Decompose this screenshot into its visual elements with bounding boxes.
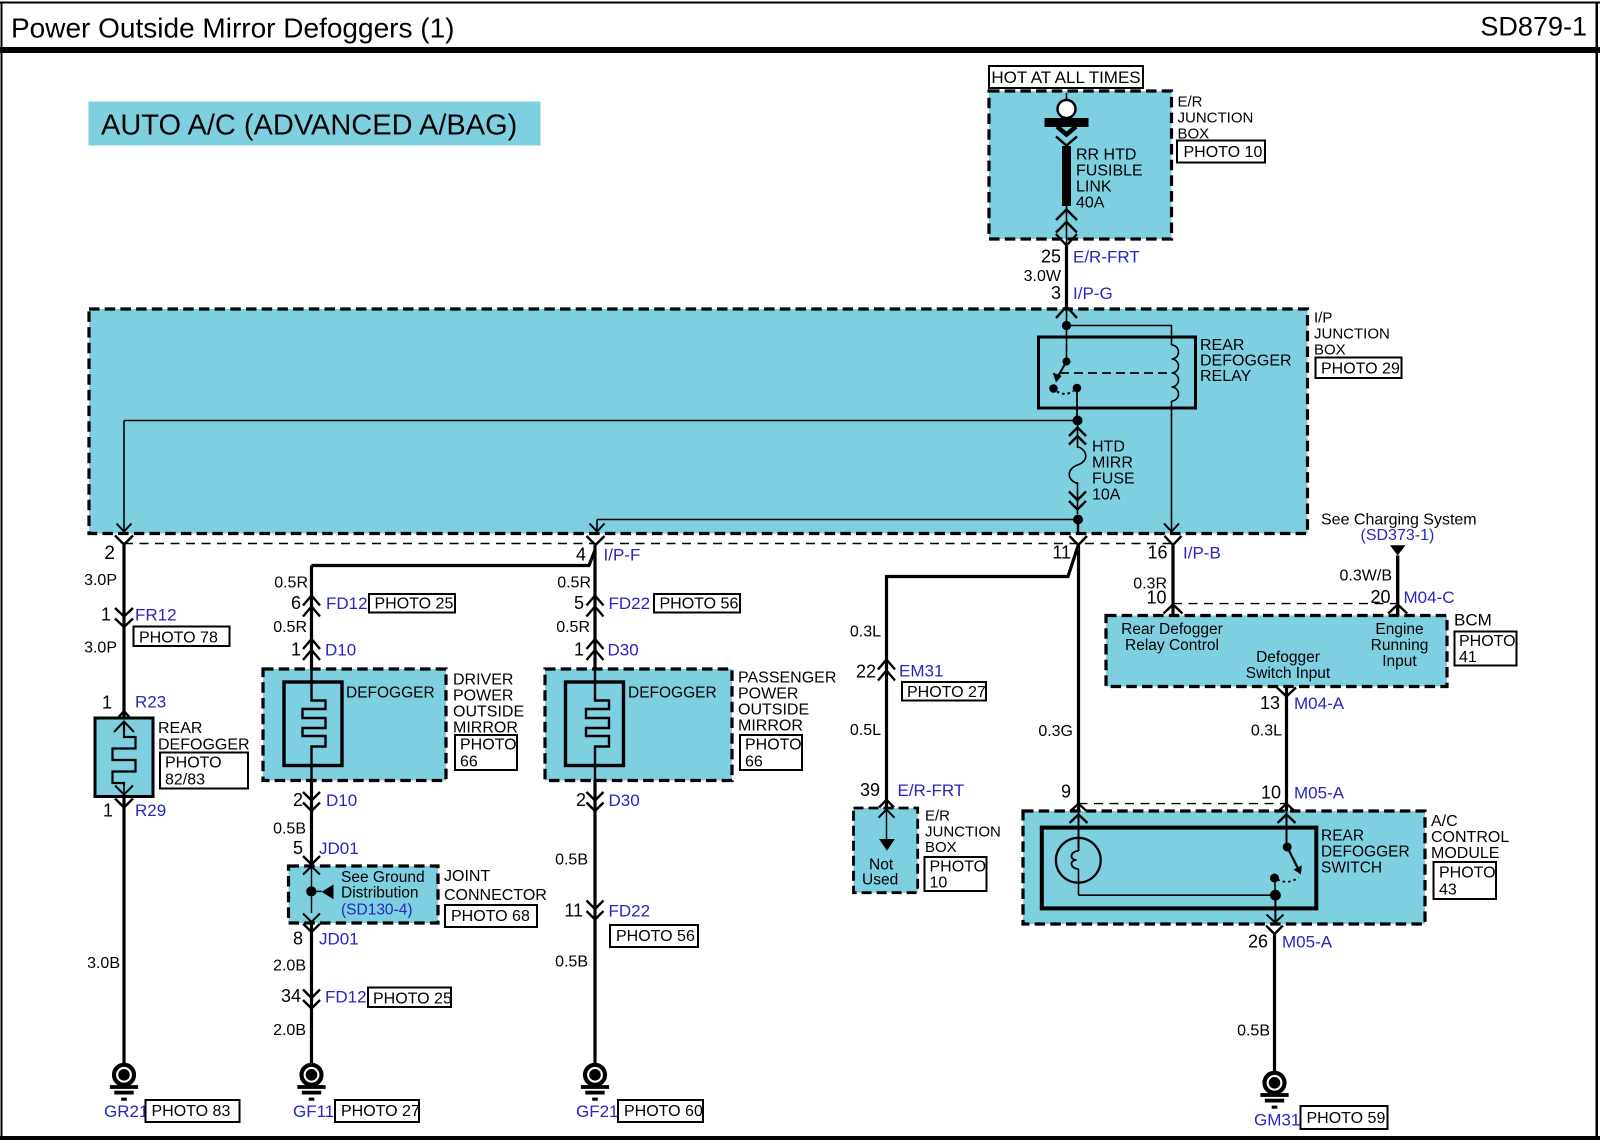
- svg-text:PHOTO 59: PHOTO 59: [1307, 1110, 1386, 1127]
- svg-text:OUTSIDE: OUTSIDE: [738, 702, 809, 719]
- svg-text:D30: D30: [609, 791, 640, 810]
- svg-text:FD22: FD22: [609, 594, 651, 613]
- svg-text:(SD373-1): (SD373-1): [1361, 527, 1435, 544]
- svg-text:PHOTO: PHOTO: [745, 737, 802, 754]
- svg-text:M04-C: M04-C: [1404, 588, 1455, 607]
- svg-text:0.5B: 0.5B: [273, 821, 306, 838]
- svg-text:DEFOGGER: DEFOGGER: [346, 685, 435, 702]
- svg-text:1: 1: [102, 693, 112, 713]
- svg-text:PHOTO: PHOTO: [460, 737, 517, 754]
- svg-text:I/P-F: I/P-F: [604, 546, 641, 565]
- svg-text:43: 43: [1439, 882, 1457, 899]
- svg-text:PHOTO 27: PHOTO 27: [341, 1103, 420, 1120]
- svg-text:13: 13: [1260, 693, 1280, 713]
- svg-text:M04-A: M04-A: [1294, 694, 1345, 713]
- svg-text:See Ground: See Ground: [341, 869, 425, 886]
- svg-text:0.5L: 0.5L: [850, 722, 881, 739]
- svg-text:OUTSIDE: OUTSIDE: [453, 704, 524, 721]
- svg-text:Input: Input: [1382, 653, 1417, 670]
- svg-text:PHOTO 60: PHOTO 60: [624, 1103, 703, 1120]
- svg-text:40A: 40A: [1076, 195, 1105, 212]
- svg-text:0.3W/B: 0.3W/B: [1340, 568, 1392, 585]
- svg-text:8: 8: [293, 929, 303, 949]
- svg-text:CONNECTOR: CONNECTOR: [444, 887, 547, 904]
- svg-text:E/R-FRT: E/R-FRT: [1073, 248, 1140, 267]
- svg-text:HOT AT ALL TIMES: HOT AT ALL TIMES: [991, 68, 1140, 87]
- svg-text:5: 5: [293, 838, 303, 858]
- svg-text:0.5R: 0.5R: [557, 575, 591, 592]
- svg-text:(SD130-4): (SD130-4): [341, 902, 413, 919]
- svg-text:Relay Control: Relay Control: [1125, 637, 1219, 654]
- svg-text:82/83: 82/83: [165, 772, 205, 789]
- svg-text:REAR: REAR: [158, 720, 202, 737]
- svg-text:GM31: GM31: [1254, 1111, 1300, 1130]
- svg-text:3.0P: 3.0P: [84, 572, 117, 589]
- svg-text:0.3L: 0.3L: [1251, 723, 1282, 740]
- svg-text:PHOTO 83: PHOTO 83: [152, 1103, 231, 1120]
- svg-text:BOX: BOX: [1314, 342, 1346, 359]
- svg-text:DEFOGGER: DEFOGGER: [158, 737, 250, 754]
- svg-text:DRIVER: DRIVER: [453, 672, 513, 689]
- svg-text:PHOTO: PHOTO: [1439, 865, 1496, 882]
- svg-text:I/P: I/P: [1314, 310, 1332, 327]
- svg-text:1: 1: [291, 640, 301, 660]
- svg-text:E/R: E/R: [1178, 94, 1203, 111]
- svg-text:Running: Running: [1371, 637, 1429, 654]
- svg-text:GR21: GR21: [104, 1102, 148, 1121]
- svg-text:1: 1: [574, 640, 584, 660]
- svg-text:JD01: JD01: [319, 839, 359, 858]
- svg-text:Rear Defogger: Rear Defogger: [1121, 621, 1223, 638]
- svg-text:0.5B: 0.5B: [1237, 1023, 1270, 1040]
- svg-text:JUNCTION: JUNCTION: [1178, 110, 1254, 127]
- svg-text:PHOTO 10: PHOTO 10: [1184, 144, 1263, 161]
- svg-text:0.5B: 0.5B: [555, 852, 588, 869]
- svg-text:See Charging System: See Charging System: [1321, 512, 1477, 529]
- svg-text:0.5R: 0.5R: [274, 575, 308, 592]
- svg-text:DEFOGGER: DEFOGGER: [628, 685, 717, 702]
- svg-text:JUNCTION: JUNCTION: [925, 824, 1001, 841]
- svg-text:FUSIBLE: FUSIBLE: [1076, 163, 1143, 180]
- svg-text:LINK: LINK: [1076, 179, 1112, 196]
- svg-text:6: 6: [291, 593, 301, 613]
- svg-text:E/R-FRT: E/R-FRT: [898, 781, 965, 800]
- svg-text:1: 1: [103, 801, 113, 821]
- svg-text:5: 5: [574, 593, 584, 613]
- svg-text:66: 66: [460, 754, 478, 771]
- svg-text:10: 10: [1261, 783, 1281, 803]
- svg-text:9: 9: [1061, 782, 1071, 802]
- svg-text:0.5R: 0.5R: [273, 619, 307, 636]
- svg-text:66: 66: [745, 754, 763, 771]
- svg-text:MIRR: MIRR: [1092, 455, 1133, 472]
- svg-text:I/P-B: I/P-B: [1183, 544, 1221, 563]
- svg-text:PHOTO: PHOTO: [165, 755, 222, 772]
- svg-text:FD12: FD12: [325, 988, 367, 1007]
- svg-text:AUTO A/C (ADVANCED A/BAG): AUTO A/C (ADVANCED A/BAG): [101, 110, 517, 142]
- svg-text:MIRROR: MIRROR: [453, 720, 518, 737]
- svg-text:PHOTO 78: PHOTO 78: [139, 630, 218, 647]
- svg-text:PHOTO 29: PHOTO 29: [1321, 361, 1400, 378]
- svg-text:JD01: JD01: [319, 930, 359, 949]
- svg-text:D10: D10: [325, 641, 356, 660]
- svg-text:16: 16: [1147, 543, 1167, 563]
- svg-text:25: 25: [1041, 247, 1061, 267]
- svg-text:Distribution: Distribution: [341, 885, 419, 902]
- svg-text:0.3L: 0.3L: [850, 624, 881, 641]
- svg-text:FD22: FD22: [609, 902, 651, 921]
- svg-text:RELAY: RELAY: [1200, 368, 1252, 385]
- svg-text:R29: R29: [135, 801, 166, 820]
- svg-text:PASSENGER: PASSENGER: [738, 670, 836, 687]
- svg-text:PHOTO 25: PHOTO 25: [375, 596, 454, 613]
- svg-text:JUNCTION: JUNCTION: [1314, 326, 1390, 343]
- svg-text:Defogger: Defogger: [1256, 649, 1320, 666]
- svg-text:PHOTO: PHOTO: [1459, 633, 1516, 650]
- svg-text:Power Outside Mirror Defoggers: Power Outside Mirror Defoggers (1): [11, 13, 454, 44]
- svg-text:SD879-1: SD879-1: [1480, 12, 1587, 42]
- svg-text:I/P-G: I/P-G: [1073, 284, 1113, 303]
- svg-text:41: 41: [1459, 649, 1477, 666]
- svg-text:1: 1: [101, 605, 111, 625]
- svg-text:PHOTO 25: PHOTO 25: [373, 991, 452, 1008]
- svg-text:2.0B: 2.0B: [273, 958, 306, 975]
- svg-text:POWER: POWER: [453, 688, 513, 705]
- svg-text:A/C: A/C: [1431, 813, 1458, 830]
- svg-text:3.0B: 3.0B: [87, 955, 120, 972]
- svg-text:D30: D30: [608, 641, 639, 660]
- svg-text:PHOTO 68: PHOTO 68: [451, 908, 530, 925]
- svg-text:FD12: FD12: [326, 594, 368, 613]
- svg-text:FUSE: FUSE: [1092, 471, 1135, 488]
- svg-text:26: 26: [1248, 932, 1268, 952]
- svg-text:PHOTO: PHOTO: [930, 859, 987, 876]
- svg-text:MODULE: MODULE: [1431, 845, 1499, 862]
- svg-text:DEFOGGER: DEFOGGER: [1200, 353, 1292, 370]
- svg-text:0.5B: 0.5B: [555, 954, 588, 971]
- svg-text:REAR: REAR: [1200, 337, 1244, 354]
- svg-text:POWER: POWER: [738, 686, 798, 703]
- svg-text:HTD: HTD: [1092, 439, 1125, 456]
- svg-text:PHOTO 56: PHOTO 56: [660, 596, 739, 613]
- svg-text:FR12: FR12: [135, 606, 177, 625]
- svg-text:R23: R23: [135, 693, 166, 712]
- svg-text:E/R: E/R: [925, 808, 950, 825]
- svg-text:0.5R: 0.5R: [556, 619, 590, 636]
- svg-text:PHOTO 27: PHOTO 27: [907, 684, 986, 701]
- svg-text:GF11: GF11: [293, 1102, 334, 1121]
- svg-text:39: 39: [860, 780, 880, 800]
- svg-text:10: 10: [1146, 588, 1166, 608]
- svg-text:2: 2: [576, 790, 586, 810]
- svg-text:M05-A: M05-A: [1294, 784, 1345, 803]
- svg-text:11: 11: [1052, 543, 1071, 563]
- svg-text:RR HTD: RR HTD: [1076, 147, 1136, 164]
- svg-text:GF21: GF21: [576, 1102, 619, 1121]
- svg-text:MIRROR: MIRROR: [738, 718, 803, 735]
- svg-text:SWITCH: SWITCH: [1321, 860, 1382, 877]
- svg-text:22: 22: [856, 662, 876, 682]
- svg-text:0.3G: 0.3G: [1038, 723, 1073, 740]
- svg-text:2: 2: [293, 790, 303, 810]
- svg-text:Used: Used: [862, 872, 898, 889]
- svg-text:JOINT: JOINT: [444, 868, 490, 885]
- svg-text:BCM: BCM: [1454, 611, 1492, 630]
- svg-text:4: 4: [576, 545, 586, 565]
- svg-text:Switch Input: Switch Input: [1246, 665, 1331, 682]
- svg-text:BOX: BOX: [925, 839, 957, 856]
- svg-text:PHOTO 56: PHOTO 56: [616, 928, 695, 945]
- svg-text:11: 11: [564, 901, 583, 921]
- svg-text:3: 3: [1051, 283, 1061, 303]
- svg-text:CONTROL: CONTROL: [1431, 829, 1509, 846]
- svg-text:34: 34: [281, 986, 301, 1006]
- svg-text:10: 10: [930, 875, 948, 892]
- svg-text:2.0B: 2.0B: [273, 1022, 306, 1039]
- svg-text:Engine: Engine: [1375, 621, 1423, 638]
- svg-text:M05-A: M05-A: [1282, 933, 1333, 952]
- svg-text:EM31: EM31: [899, 662, 943, 681]
- svg-text:REAR: REAR: [1321, 828, 1364, 845]
- svg-text:3.0P: 3.0P: [84, 640, 117, 657]
- svg-text:10A: 10A: [1092, 487, 1121, 504]
- svg-text:2: 2: [104, 543, 115, 564]
- svg-text:D10: D10: [326, 791, 357, 810]
- svg-text:DEFOGGER: DEFOGGER: [1321, 844, 1410, 861]
